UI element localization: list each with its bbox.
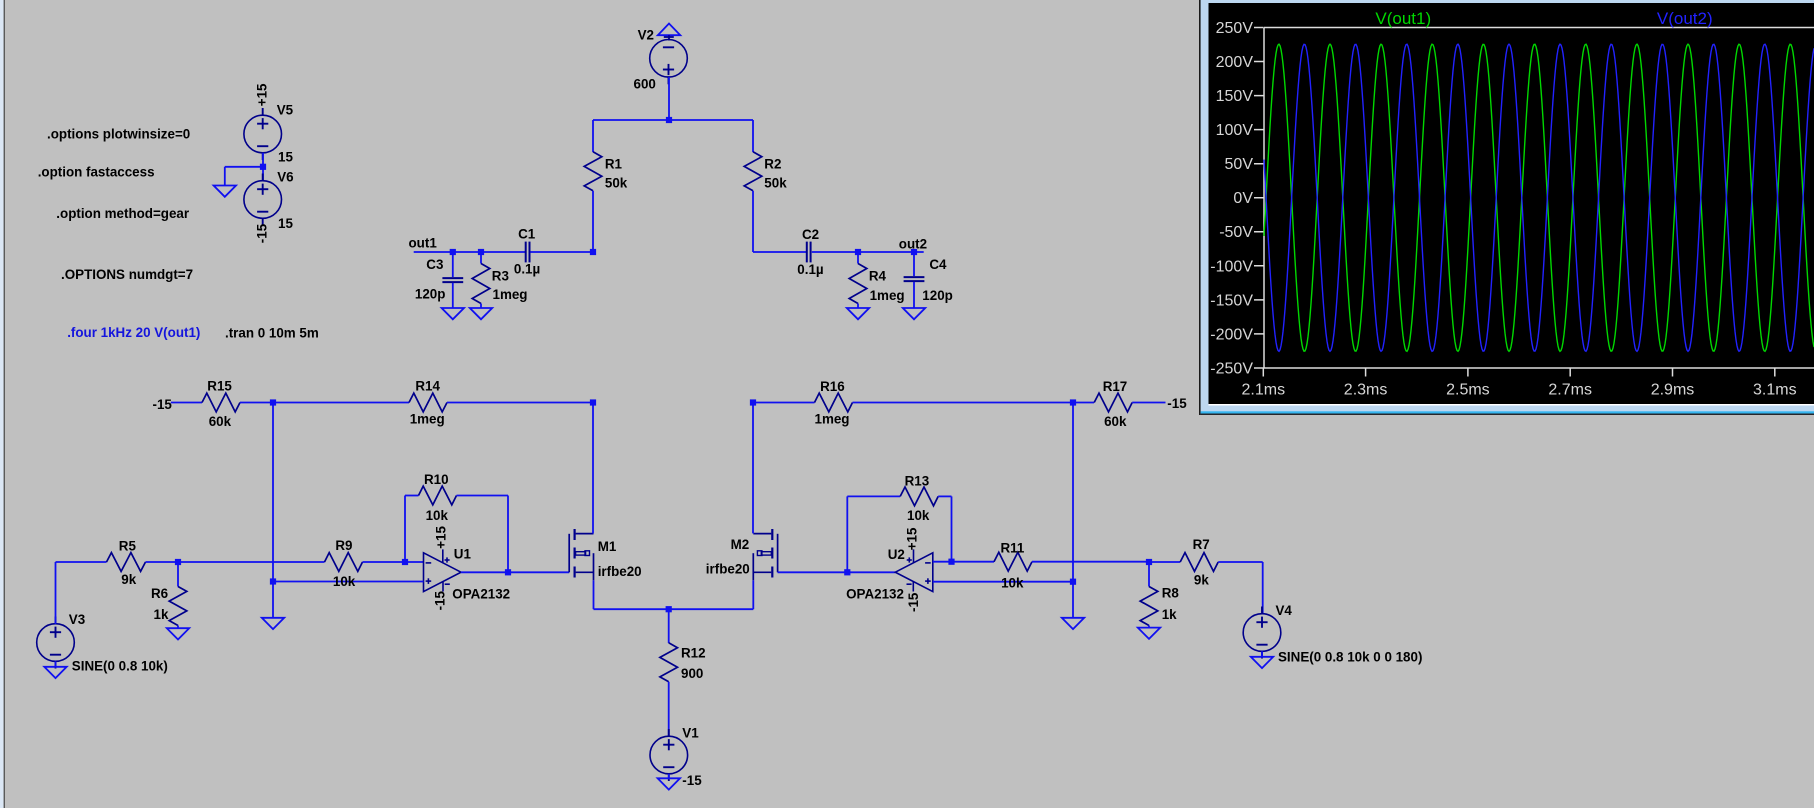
wire rail to R1 <box>592 120 594 152</box>
plot frame <box>1264 28 1814 369</box>
wire to R10 <box>405 495 419 497</box>
svg-text:-100V: -100V <box>1210 258 1253 275</box>
node junction <box>911 249 917 255</box>
wire R1 column to M1 drain <box>592 403 594 534</box>
resistor R13 <box>900 487 938 506</box>
wire to C3 <box>452 252 454 277</box>
svg-text:irfbe20: irfbe20 <box>598 564 642 579</box>
svg-text:0.1µ: 0.1µ <box>797 262 823 277</box>
capacitor C4 <box>904 277 925 281</box>
node junction <box>260 164 266 170</box>
svg-text:15: 15 <box>278 216 293 231</box>
svg-text:M2: M2 <box>731 537 750 552</box>
svg-text:1meg: 1meg <box>493 287 528 302</box>
svg-text:R4: R4 <box>869 268 887 283</box>
node junction <box>505 569 511 575</box>
svg-text:100V: 100V <box>1216 122 1254 139</box>
wire node down left <box>272 403 274 582</box>
svg-text:10k: 10k <box>426 508 449 523</box>
svg-text:.option fastaccess: .option fastaccess <box>38 165 155 180</box>
op-amp U2 OPA2132 <box>895 549 933 591</box>
svg-text:2.3ms: 2.3ms <box>1344 382 1388 399</box>
resistor R5 <box>107 553 146 572</box>
svg-text:200V: 200V <box>1216 54 1254 71</box>
wire to U1 noninverting input <box>273 581 424 583</box>
resistor R17 <box>1094 393 1132 412</box>
wire node to R7 <box>1149 561 1180 563</box>
wire R13 right <box>938 495 951 497</box>
wire R2 to C2 node <box>752 191 754 252</box>
svg-text:0.1µ: 0.1µ <box>514 261 540 276</box>
wire R15 to R14 <box>240 402 409 404</box>
svg-text:OPA2132: OPA2132 <box>452 587 510 602</box>
svg-text:R14: R14 <box>415 379 440 394</box>
svg-text:1meg: 1meg <box>815 411 850 426</box>
wire feedback down (U2) <box>951 496 953 561</box>
wire R10 to feedback right <box>457 495 509 497</box>
svg-text:-15: -15 <box>1167 396 1187 411</box>
wire R4 to ground <box>857 304 859 308</box>
node junction <box>844 569 850 575</box>
svg-text:U1: U1 <box>454 546 472 561</box>
capacitor C2 <box>807 242 811 263</box>
svg-text:R12: R12 <box>681 646 706 661</box>
wire R7 right <box>1218 561 1263 563</box>
node junction <box>1070 399 1076 405</box>
ground <box>167 628 189 639</box>
wire to ground <box>225 166 263 168</box>
svg-text:+15: +15 <box>255 83 270 106</box>
svg-text:120p: 120p <box>415 287 446 302</box>
resistor R3 <box>472 264 490 304</box>
svg-text:R13: R13 <box>905 474 930 489</box>
wire R2 column to M2 drain <box>752 403 754 534</box>
resistor R15 <box>202 393 240 412</box>
svg-text:600: 600 <box>634 76 656 91</box>
wire C1 to center column <box>530 251 593 253</box>
transistor M1 irfbe20 <box>569 529 593 580</box>
svg-text:2.5ms: 2.5ms <box>1446 382 1490 399</box>
ground <box>1138 628 1160 639</box>
svg-text:U2: U2 <box>888 547 905 562</box>
svg-text:C1: C1 <box>518 226 536 241</box>
svg-text:R16: R16 <box>820 379 845 394</box>
node junction <box>590 249 596 255</box>
svg-text:out1: out1 <box>409 236 438 251</box>
wire R5 to node <box>146 561 179 563</box>
svg-text:V4: V4 <box>1276 603 1293 618</box>
resistor R9 <box>325 553 363 572</box>
wire to R12 <box>668 609 670 643</box>
svg-text:3.1ms: 3.1ms <box>1753 382 1797 399</box>
svg-text:V6: V6 <box>277 169 293 184</box>
svg-text:1meg: 1meg <box>870 288 905 303</box>
svg-text:R2: R2 <box>764 157 781 172</box>
svg-text:V(out1): V(out1) <box>1375 9 1431 28</box>
resistor R2 <box>744 152 762 191</box>
wire M1 source down <box>593 580 595 609</box>
svg-text:C3: C3 <box>426 257 443 272</box>
voltage source V5 <box>244 108 282 160</box>
ground <box>214 186 236 197</box>
svg-text:C4: C4 <box>929 257 947 272</box>
y axis ticks and labels <box>1254 28 1264 369</box>
wire V2 to rail <box>668 77 670 120</box>
capacitor C3 <box>442 278 463 282</box>
wire -15 to R15 <box>171 402 202 404</box>
x axis ticks and labels <box>1263 368 1775 377</box>
wire to C4 <box>913 252 915 276</box>
svg-text:9k: 9k <box>1194 573 1209 588</box>
wire top rail <box>593 119 753 121</box>
svg-text:-15: -15 <box>432 590 447 610</box>
node junction <box>402 559 408 565</box>
wire U2 inverting input to R11 <box>933 561 994 563</box>
wire to C2 <box>753 251 807 253</box>
svg-text:250V: 250V <box>1216 20 1254 37</box>
svg-text:.options plotwinsize=0: .options plotwinsize=0 <box>47 126 190 141</box>
ground <box>847 308 869 319</box>
svg-text:+15: +15 <box>904 527 919 550</box>
wire C3 to ground <box>452 283 454 308</box>
svg-text:60k: 60k <box>209 414 232 429</box>
svg-text:1k: 1k <box>1162 607 1177 622</box>
trace V(out1) green <box>1264 44 1814 351</box>
svg-text:0V: 0V <box>1233 190 1253 207</box>
resistor R11 <box>994 552 1032 571</box>
node junction <box>948 559 954 565</box>
wire to R9 <box>178 561 325 563</box>
wire R11 to node <box>1032 561 1149 563</box>
resistor R12 <box>660 643 678 682</box>
svg-text:R15: R15 <box>207 379 232 394</box>
svg-text:R9: R9 <box>335 538 352 553</box>
svg-text:-15: -15 <box>906 592 921 612</box>
wire R14 to center column <box>447 402 593 404</box>
wire R3 to ground <box>480 304 482 308</box>
svg-text:R17: R17 <box>1103 379 1128 394</box>
wire R12 to V1 <box>668 682 670 737</box>
svg-text:-15: -15 <box>682 773 702 788</box>
wire feedback down <box>507 496 509 573</box>
svg-text:.option method=gear: .option method=gear <box>56 206 190 221</box>
wire U1 output to M1 gate <box>461 571 569 573</box>
resistor R7 <box>1180 553 1218 572</box>
wire R6 to ground <box>177 626 179 629</box>
svg-text:50k: 50k <box>764 176 787 191</box>
wire V3 up <box>55 562 57 624</box>
svg-text:SINE(0 0.8 10k 0 0 180): SINE(0 0.8 10k 0 0 180) <box>1278 650 1422 665</box>
svg-text:-250V: -250V <box>1210 360 1253 377</box>
node junction <box>450 249 456 255</box>
wire rail to R2 <box>752 120 754 152</box>
svg-text:V3: V3 <box>69 612 85 627</box>
svg-text:R11: R11 <box>1001 541 1025 556</box>
svg-text:C2: C2 <box>802 227 819 242</box>
svg-text:OPA2132: OPA2132 <box>846 587 904 602</box>
ground <box>1062 618 1084 629</box>
svg-text:-50V: -50V <box>1219 224 1253 241</box>
svg-text:irfbe20: irfbe20 <box>706 562 750 577</box>
wire node to R6 <box>177 562 179 587</box>
svg-text:.four 1kHz 20 V(out1): .four 1kHz 20 V(out1) <box>67 325 200 340</box>
net flag arrow (V2 top) <box>658 24 681 36</box>
node junction <box>1146 559 1152 565</box>
wire V3 to R5 <box>56 561 107 563</box>
node junction <box>270 578 276 584</box>
wire out2 row <box>812 251 924 253</box>
svg-text:SINE(0 0.8 10k): SINE(0 0.8 10k) <box>72 658 168 673</box>
resistor R4 <box>849 264 867 304</box>
svg-text:R1: R1 <box>605 157 623 172</box>
voltage source V1 <box>650 729 688 781</box>
ground <box>1251 657 1273 668</box>
wire U2 noninverting input <box>933 581 1073 583</box>
wire to R3 <box>480 252 482 264</box>
svg-text:1k: 1k <box>154 607 169 622</box>
waveform plot window <box>1199 0 1814 415</box>
svg-text:R10: R10 <box>424 472 449 487</box>
voltage source V4 <box>1243 607 1281 659</box>
ground <box>470 308 492 319</box>
wire out1 row <box>414 251 525 253</box>
svg-text:150V: 150V <box>1216 88 1254 105</box>
trace V(out2) blue <box>1264 44 1814 351</box>
node junction <box>590 399 596 405</box>
node junction <box>855 249 861 255</box>
capacitor C1 <box>526 242 530 263</box>
svg-text:2.7ms: 2.7ms <box>1548 382 1592 399</box>
node junction <box>478 249 484 255</box>
svg-text:50V: 50V <box>1225 156 1254 173</box>
svg-text:10k: 10k <box>1001 576 1024 591</box>
resistor R8 <box>1140 587 1158 626</box>
svg-text:M1: M1 <box>598 539 617 554</box>
node junction <box>666 606 672 612</box>
svg-text:+15: +15 <box>434 526 449 549</box>
wire C4 to ground <box>913 282 915 308</box>
svg-text:50k: 50k <box>605 176 628 191</box>
ground <box>658 778 680 789</box>
svg-text:120p: 120p <box>922 288 953 303</box>
node junction <box>666 117 672 123</box>
ground <box>44 667 66 678</box>
svg-text:-150V: -150V <box>1210 292 1253 309</box>
resistor R6 <box>169 587 187 626</box>
svg-text:15: 15 <box>278 149 293 164</box>
wire source bus <box>594 608 754 610</box>
wire feedback left <box>404 496 406 563</box>
transistor M2 irfbe20 <box>753 529 777 580</box>
svg-text:10k: 10k <box>333 574 356 589</box>
svg-text:V(out2): V(out2) <box>1657 9 1713 28</box>
node junction <box>270 399 276 405</box>
svg-text:2.9ms: 2.9ms <box>1651 382 1695 399</box>
ground <box>903 308 925 319</box>
wire to R4 <box>857 252 859 264</box>
voltage source V3 <box>37 617 75 669</box>
wire M2 source down <box>752 580 754 609</box>
wire down to V4 <box>1262 562 1264 613</box>
wire R17 to -15 <box>1132 402 1165 404</box>
svg-text:.OPTIONS numdgt=7: .OPTIONS numdgt=7 <box>61 267 193 282</box>
svg-text:9k: 9k <box>121 572 136 587</box>
svg-text:60k: 60k <box>1104 414 1127 429</box>
ground <box>442 308 464 319</box>
svg-text:-15: -15 <box>255 223 270 243</box>
wire feedback up (U2) <box>846 496 848 572</box>
svg-text:out2: out2 <box>899 236 927 251</box>
wire to R13 <box>847 495 900 497</box>
wire R16 to R17 <box>853 402 1095 404</box>
node junction <box>1070 579 1076 585</box>
resistor R16 <box>815 393 853 412</box>
svg-text:R7: R7 <box>1193 537 1210 552</box>
svg-text:R5: R5 <box>119 539 137 554</box>
wire R1 to out1 node <box>592 191 594 252</box>
svg-text:2.1ms: 2.1ms <box>1242 382 1286 399</box>
ground <box>262 618 284 629</box>
wire to ground <box>272 582 274 618</box>
wire R9 to U1 inverting input <box>363 561 424 563</box>
svg-text:V1: V1 <box>682 725 699 740</box>
wire V1 to ground <box>668 774 670 778</box>
svg-text:-15: -15 <box>153 397 173 412</box>
wire V5- to V6+ <box>262 153 264 181</box>
resistor R10 <box>419 486 457 505</box>
svg-text:900: 900 <box>681 666 703 681</box>
wire node to R8 <box>1148 562 1150 587</box>
wire R8 to ground <box>1148 626 1150 628</box>
wire to R16 <box>753 402 815 404</box>
svg-text:V5: V5 <box>277 103 294 118</box>
wire to ground <box>1072 582 1074 618</box>
op-amp U1 OPA2132 <box>424 549 462 591</box>
resistor R1 <box>584 152 602 191</box>
svg-text:-200V: -200V <box>1210 326 1253 343</box>
svg-text:V2: V2 <box>638 27 654 42</box>
node junction <box>175 559 181 565</box>
svg-text:R6: R6 <box>151 586 168 601</box>
resistor R14 <box>409 393 447 412</box>
wire V3 to ground <box>55 661 57 666</box>
window left edge <box>0 0 4 808</box>
svg-text:R8: R8 <box>1162 586 1180 601</box>
svg-text:10k: 10k <box>907 508 930 523</box>
wire node down right <box>1072 403 1074 582</box>
wire down to ground <box>224 167 226 185</box>
wire M2 gate to U2 output <box>778 571 896 573</box>
svg-text:1meg: 1meg <box>410 411 445 426</box>
node junction <box>750 399 756 405</box>
voltage source V2 <box>650 40 688 85</box>
voltage source V6 <box>244 174 282 226</box>
wire V4 to ground <box>1261 651 1263 656</box>
svg-text:.tran 0 10m 5m: .tran 0 10m 5m <box>225 325 319 340</box>
svg-text:R3: R3 <box>492 268 509 283</box>
